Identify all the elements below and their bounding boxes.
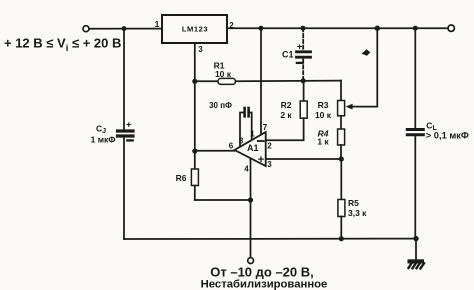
capacitor C1 (dashed optional)	[282, 28, 311, 81]
node B	[259, 26, 264, 31]
svg-text:2 к: 2 к	[280, 110, 292, 120]
svg-text:3: 3	[198, 45, 203, 54]
node K (R5/bottom)	[339, 236, 344, 241]
op-amp A1	[235, 132, 266, 166]
wire LM123 pin3 down	[194, 43, 196, 151]
wire	[195, 199, 251, 201]
resistor R4	[317, 116, 344, 159]
svg-text:C1: C1	[282, 50, 294, 60]
svg-text:30 пФ: 30 пФ	[209, 101, 232, 110]
wire	[123, 136, 125, 239]
regulator U1 LM123	[162, 15, 227, 43]
svg-text:LM123: LM123	[182, 25, 208, 34]
wire bottom rail	[124, 238, 416, 240]
resistor R5	[338, 198, 367, 239]
svg-text:2: 2	[267, 142, 272, 151]
node A (input junction)	[122, 26, 127, 31]
wire op-amp output pin 6	[195, 150, 235, 152]
wire to ground	[415, 239, 417, 260]
svg-text:1: 1	[155, 20, 160, 29]
svg-text:R5: R5	[348, 198, 359, 208]
svg-text:+: +	[126, 119, 132, 130]
wire op-amp pin2	[266, 139, 304, 141]
wire op-amp pin3	[266, 158, 342, 160]
wire	[89, 28, 162, 30]
svg-text:CJ: CJ	[96, 124, 106, 136]
svg-text:10 к: 10 к	[215, 69, 232, 79]
wiper arrow	[346, 104, 353, 110]
node G (C1/R2 top)	[301, 78, 306, 83]
svg-text:3,3 к: 3,3 к	[348, 208, 367, 218]
node D	[375, 26, 380, 31]
svg-text:От –10 до –20 В,: От –10 до –20 В,	[210, 265, 314, 280]
wire pin7 supply	[260, 28, 262, 134]
node F (pin3 / R1)	[192, 79, 197, 84]
svg-text:+ 12 В ≤ Vi ≤ + 20 В: + 12 В ≤ Vi ≤ + 20 В	[4, 36, 121, 55]
svg-text:10 к: 10 к	[315, 110, 332, 120]
terminal J2 output	[448, 25, 454, 31]
ground	[408, 259, 425, 268]
node L (ground)	[413, 236, 418, 241]
capacitor CL	[407, 28, 469, 238]
node J (R6 / pin4)	[248, 197, 253, 202]
node C	[301, 26, 306, 31]
wire R3 top	[340, 81, 342, 101]
svg-text:6: 6	[229, 142, 234, 151]
svg-text:7: 7	[263, 123, 268, 132]
svg-text:+: +	[258, 154, 264, 166]
svg-text:R2: R2	[281, 100, 292, 110]
svg-text:4: 4	[244, 165, 249, 174]
svg-text:Нестабилизированное: Нестабилизированное	[201, 278, 328, 290]
capacitor CJ	[91, 119, 133, 144]
wiper wire of R3	[351, 28, 377, 106]
node H (R4 / pin3)	[339, 156, 344, 161]
wire top rail right	[227, 27, 448, 29]
svg-text:1 мкФ: 1 мкФ	[91, 134, 116, 144]
wire	[195, 80, 218, 82]
wire	[123, 29, 125, 130]
svg-text:> 0,1 мкФ: > 0,1 мкФ	[426, 130, 469, 140]
resistor R6	[176, 151, 199, 200]
svg-text:3: 3	[267, 160, 272, 169]
node E	[413, 26, 418, 31]
svg-text:+: +	[297, 41, 303, 52]
svg-text:1 к: 1 к	[317, 137, 329, 147]
capacitor 30pF compensation	[209, 101, 252, 147]
resistor R2	[280, 81, 307, 140]
potentiometer R3	[315, 100, 345, 120]
wire	[340, 159, 342, 200]
ink speck arrow	[362, 49, 371, 55]
terminal J1 positive input	[83, 26, 89, 32]
svg-text:R6: R6	[176, 173, 187, 183]
svg-text:A1: A1	[247, 143, 259, 153]
terminal J3 negative input	[248, 258, 254, 264]
wire	[235, 80, 341, 83]
wire op-amp pin4	[250, 159, 252, 259]
svg-text:R3: R3	[318, 100, 329, 110]
node I (output/R6)	[192, 148, 197, 153]
resistor R1	[214, 61, 236, 85]
